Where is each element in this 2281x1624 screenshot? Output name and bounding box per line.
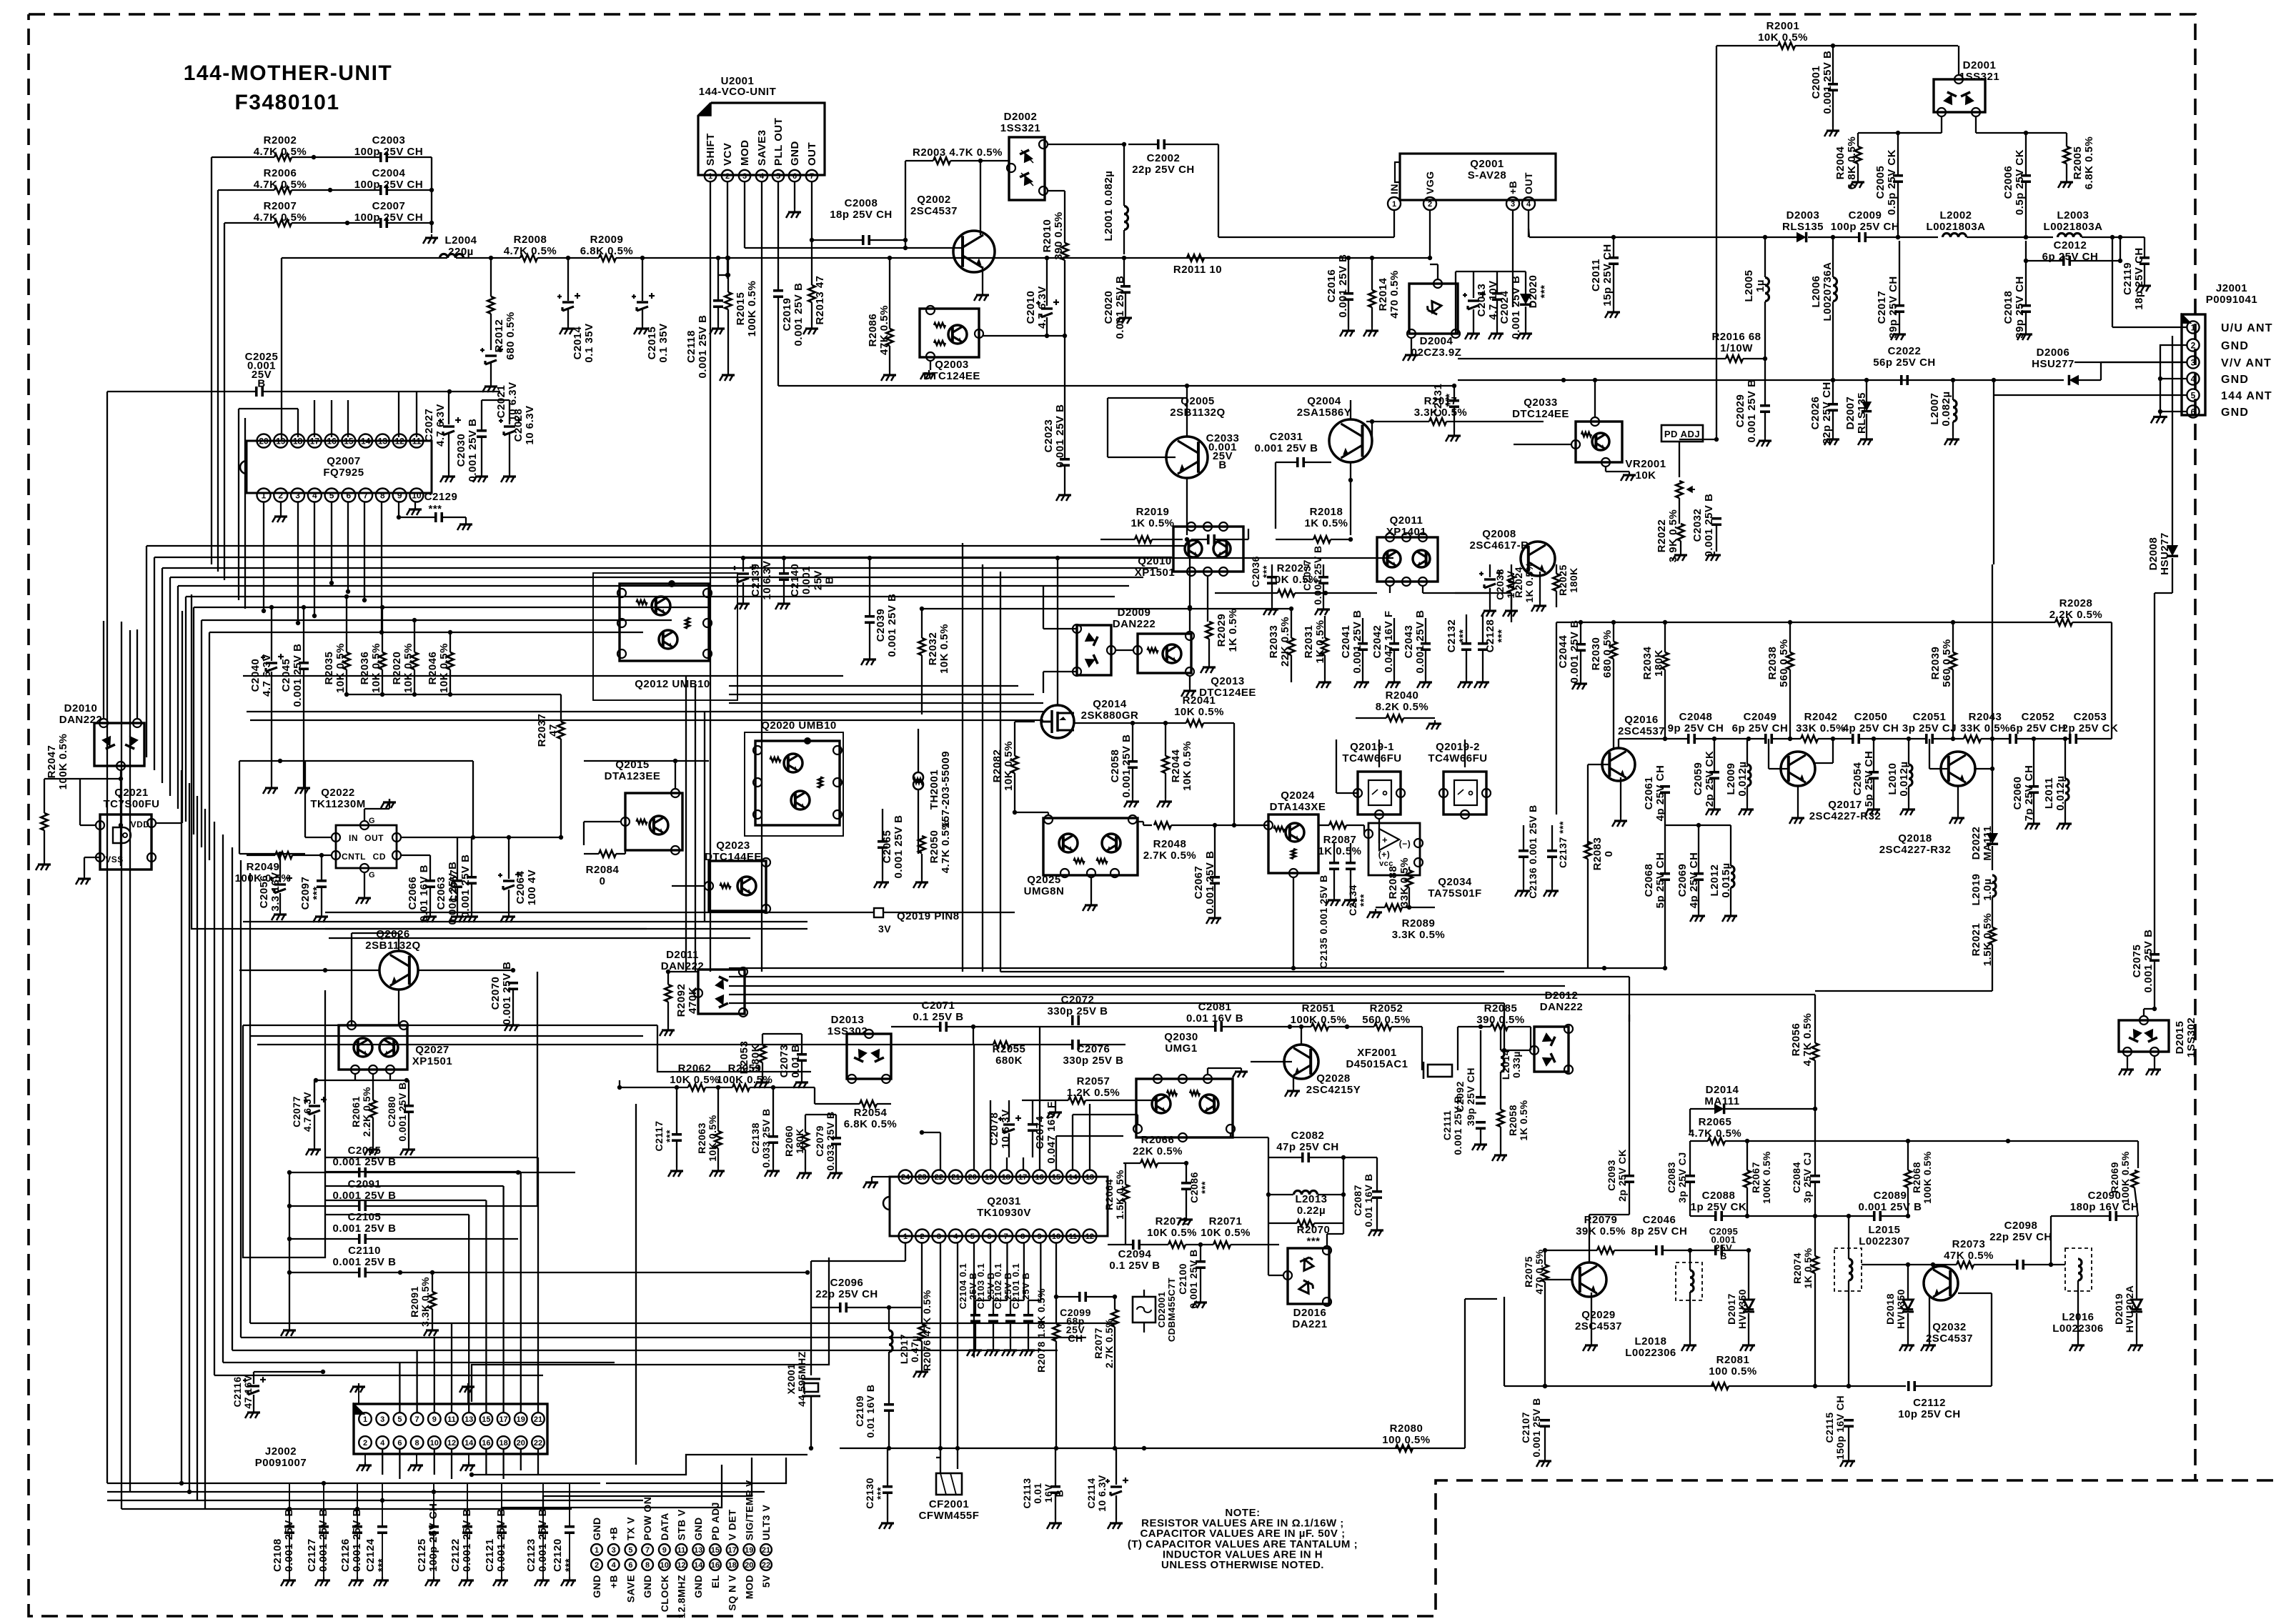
svg-text:1: 1	[262, 490, 267, 500]
capacitor C2060	[2029, 785, 2039, 788]
ground C2014	[567, 258, 569, 301]
IC Q2012 UMB10	[620, 584, 709, 661]
wire Q2031 pin14 up	[1072, 1115, 1073, 1170]
wire R2088	[1408, 867, 1410, 870]
svg-text:R2076 47K 0.5%: R2076 47K 0.5%	[921, 1290, 933, 1371]
capacitor C2107b	[1540, 1419, 1550, 1422]
wire C2074	[1008, 1100, 1010, 1122]
module U2001 pin 2	[722, 170, 733, 181]
resistor R2014	[1368, 290, 1376, 307]
capacitor C2119	[2140, 256, 2150, 259]
svg-text:R2003 4.7K 0.5%: R2003 4.7K 0.5%	[913, 146, 1003, 159]
wire R2030	[1613, 622, 1614, 642]
IC Q2031 pin 23	[915, 1170, 929, 1184]
capacitor C2052	[2009, 734, 2012, 744]
svg-text:R20581K 0.5%: R20581K 0.5%	[1507, 1100, 1529, 1140]
wire C2045	[303, 607, 304, 662]
svg-text:18: 18	[1002, 1173, 1010, 1182]
capacitor C2033	[1207, 534, 1210, 544]
connector J2002 pin 20	[515, 1436, 527, 1449]
svg-text:1: 1	[363, 1415, 367, 1424]
wire Q2032 emitter	[1958, 1292, 1992, 1294]
ground L2012	[1730, 825, 1731, 866]
wire rail1940	[1504, 1385, 1715, 1387]
wire Q2031 pin2 down	[921, 1243, 923, 1307]
wire C2076 row	[1079, 1044, 1125, 1045]
resistor R2060	[802, 1132, 809, 1150]
svg-text:17: 17	[1018, 1173, 1027, 1182]
wire VR2001	[1679, 498, 1680, 524]
wire pin1 down	[263, 502, 264, 611]
capacitor C2075	[2150, 953, 2160, 956]
ground C2113	[1055, 1448, 1056, 1486]
module Q2001 pin 3	[1506, 197, 1519, 210]
IC Q2031 pin 3	[932, 1230, 945, 1243]
wire pin6 down	[347, 502, 349, 592]
capacitor C2012	[2062, 256, 2065, 266]
ground C2135 C2134	[1333, 870, 1335, 897]
wire R2022 down	[1680, 541, 1681, 552]
legend pin 6 circle	[625, 1559, 637, 1570]
svg-text:D2007RLS135: D2007RLS135	[1844, 392, 1868, 434]
wire R2084	[584, 853, 599, 855]
svg-text:18: 18	[293, 436, 303, 446]
wire C2010	[1046, 258, 1048, 306]
ground Q2025	[1090, 877, 1092, 902]
svg-text:POW ON: POW ON	[642, 1497, 653, 1540]
wire weaveL h9	[250, 1322, 1115, 1324]
wire run weave4	[729, 994, 1815, 995]
wire R2016 row	[1458, 358, 1726, 359]
wire C2083	[1689, 1141, 1691, 1175]
svg-text:VDD: VDD	[131, 820, 150, 830]
wire R2089	[1376, 907, 1385, 908]
wire run weave1	[729, 967, 1665, 969]
capacitor C2084	[1810, 1175, 1820, 1177]
wire R2017 row	[1366, 421, 1429, 422]
svg-text:D2009DAN222: D2009DAN222	[1113, 607, 1156, 630]
wire bus v5	[244, 418, 246, 609]
inductor L2015 (shielded)	[1834, 1248, 1862, 1291]
ground Q2032	[1929, 1297, 1930, 1342]
wire J2001 pin1	[2112, 327, 2187, 328]
wire R2014	[1371, 258, 1373, 290]
svg-text:4: 4	[953, 1232, 958, 1241]
resistor R2028	[2055, 619, 2072, 626]
ground R2004	[1857, 133, 1859, 146]
wire 144ant col	[1992, 564, 1993, 739]
IC Q2031 pin 22	[932, 1170, 945, 1184]
svg-text:17: 17	[499, 1415, 507, 1424]
resistor R2057	[1068, 1097, 1085, 1104]
ground C2108	[289, 1577, 290, 1580]
svg-text:4: 4	[760, 172, 765, 181]
capacitor C2070	[508, 982, 518, 985]
wire loop E	[1000, 971, 1504, 972]
capacitor C2022	[1900, 375, 1903, 385]
wire rail 1065 right	[584, 760, 709, 762]
IC Q2007 pin 15	[342, 434, 355, 448]
resistor R2021	[1989, 927, 1996, 945]
diode D2020	[1520, 294, 1531, 304]
inductor L2017	[889, 1330, 893, 1337]
module U2001 pin 4	[756, 170, 767, 181]
svg-text:+B: +B	[1507, 181, 1519, 194]
capacitor C2014 (tantalum)	[562, 301, 574, 303]
wire C2091 row	[289, 1205, 359, 1207]
resistor R2035	[343, 652, 350, 669]
wire J2002 pin21 up	[537, 1157, 539, 1413]
svg-text:Q2027XP1501: Q2027XP1501	[412, 1044, 452, 1067]
svg-text:L2001 0.082µ: L2001 0.082µ	[1103, 171, 1115, 241]
svg-text:3: 3	[742, 172, 747, 181]
wire run h960	[729, 685, 1018, 687]
wire Q2011 pins	[1389, 586, 1391, 593]
svg-text:CNTL: CNTL	[342, 852, 366, 862]
wire pin15 up	[347, 400, 349, 437]
svg-text:CLOCK: CLOCK	[659, 1575, 670, 1612]
wire D2015 top	[2144, 1008, 2155, 1010]
module U2001 pin 6	[789, 170, 800, 181]
wire Q2015 left	[584, 821, 621, 822]
transistor Q2026 2SB1132Q	[379, 951, 418, 990]
resistor R2050	[918, 836, 925, 853]
ground C2037	[1323, 564, 1324, 577]
svg-text:8: 8	[380, 490, 385, 500]
wire J2002 pin13 elbow	[325, 1214, 469, 1215]
ground C2100	[1200, 1245, 1201, 1261]
svg-text:D20151SS302: D20151SS302	[2174, 1017, 2197, 1057]
svg-text:18: 18	[727, 1561, 736, 1570]
wire rail852	[922, 608, 1291, 609]
wire run h1277	[325, 912, 874, 913]
svg-text:Q20292SC4537: Q20292SC4537	[1575, 1309, 1622, 1332]
legend pin 10 circle	[659, 1559, 670, 1570]
wire rail1597	[1690, 1140, 1708, 1142]
ground Q2031 pin24	[872, 1176, 898, 1177]
svg-text:R2078 1.8K 0.5%: R2078 1.8K 0.5%	[1035, 1288, 1047, 1373]
wire R2040	[1356, 717, 1386, 719]
wire loop G	[606, 1458, 786, 1483]
svg-text:3: 3	[937, 1232, 941, 1241]
wire rail871 right	[2072, 622, 2112, 623]
capacitor C2131	[1449, 399, 1459, 402]
IC Q2007 pin 19	[274, 434, 287, 448]
capacitor C2065	[878, 840, 888, 843]
capacitor C2110	[358, 1267, 361, 1277]
resistor R2032	[918, 638, 925, 655]
capacitor C2068	[1660, 872, 1670, 875]
IC Q2031 pin 13	[1083, 1170, 1096, 1184]
wire L2015 col	[1848, 1216, 1849, 1259]
wire row1750 c	[1722, 1250, 1749, 1251]
capacitor C2113	[1050, 1485, 1060, 1488]
svg-text:144 ANT: 144 ANT	[2221, 390, 2272, 402]
wire R2003	[905, 160, 933, 161]
resistor R2044	[1162, 756, 1169, 773]
transistor Q2002 2SC4537	[953, 231, 995, 272]
module Q2001 pin 2	[1423, 197, 1436, 210]
svg-text:R2011 10: R2011 10	[1173, 264, 1222, 276]
wire R2087	[1318, 825, 1329, 826]
legend pin 2 circle	[591, 1559, 602, 1570]
svg-text:12: 12	[394, 436, 404, 446]
ground C2092	[1480, 1030, 1481, 1097]
ground C2060	[2033, 739, 2034, 786]
transistor Q2028 2SC4215Y	[1284, 1045, 1318, 1079]
resistor R2054	[860, 1100, 877, 1107]
resistor R2010	[1061, 243, 1068, 260]
wire left v170	[121, 622, 122, 1509]
capacitor C2007	[379, 218, 382, 228]
svg-text:22: 22	[762, 1561, 770, 1570]
capacitor C2138	[768, 1135, 778, 1138]
IC Q2031 pin 24	[899, 1170, 913, 1184]
wire C2093	[1629, 1015, 1630, 1175]
capacitor C2083	[1685, 1175, 1695, 1177]
transistor Q2018 2SC4227-R32	[1941, 752, 1975, 786]
wire R2085 row	[1458, 1026, 1491, 1027]
svg-text:R2034180K: R2034180K	[1641, 646, 1665, 679]
wire cap bus vertical	[431, 157, 432, 233]
legend pin 8 circle	[642, 1559, 653, 1570]
resistor R2078	[1053, 1324, 1060, 1341]
wire bus h5	[178, 585, 1129, 587]
IC Q2031 pin 10	[1050, 1230, 1063, 1243]
wire L2005	[1764, 237, 1766, 277]
capacitor C2096	[839, 1302, 842, 1312]
transistor Q2016 2SC4537	[1602, 748, 1635, 781]
wire Q2026 emitter	[398, 990, 399, 1025]
ground Q2013	[1189, 676, 1191, 687]
legend pin 3 circle	[608, 1544, 620, 1555]
wire C2012	[2026, 260, 2063, 261]
capacitor C2037	[1318, 576, 1328, 579]
switch Q2019-1 TC4W66FU	[1358, 772, 1401, 815]
inductor L2002	[1943, 234, 1951, 237]
capacitor C2128	[1478, 642, 1488, 645]
wire row1034 f	[1933, 738, 1964, 739]
wire C2016	[1348, 258, 1349, 293]
svg-text:R20311K 0.5%: R20311K 0.5%	[1303, 619, 1326, 663]
resistor R2006	[274, 186, 292, 194]
diode D2008 HSU277	[2167, 545, 2178, 556]
svg-text:V/V ANT: V/V ANT	[2221, 357, 2272, 369]
legend pin 18 circle	[727, 1559, 738, 1570]
connector J2001 pin 3	[2187, 356, 2199, 368]
IC Q2031 pin 19	[983, 1170, 996, 1184]
wire R2091	[432, 1272, 433, 1292]
inductor L2007	[1953, 400, 1957, 407]
svg-text:MOD: MOD	[743, 1575, 755, 1599]
svg-text:R2092470K: R2092470K	[675, 984, 699, 1017]
capacitor C2017	[1894, 304, 1904, 307]
ground C2125	[433, 1577, 434, 1580]
svg-text:4: 4	[380, 1439, 385, 1448]
diode D2006 HSU277	[2069, 375, 2079, 385]
wire rail-left	[282, 257, 447, 259]
svg-text:13: 13	[464, 1415, 473, 1424]
wire J2002 bus 5	[472, 1455, 807, 1475]
wire D2014 row	[1690, 1108, 1714, 1110]
svg-text:12: 12	[447, 1439, 456, 1448]
wire Q2016 collector	[1618, 739, 1619, 748]
wire pin4 down	[314, 502, 315, 616]
wire R2048 right	[1171, 825, 1268, 826]
legend pin 7 circle	[642, 1544, 653, 1555]
ground C2015	[642, 258, 643, 301]
svg-text:SAVE3: SAVE3	[756, 129, 768, 166]
connector J2001 pin 2	[2187, 339, 2199, 351]
wire rail 1065	[239, 760, 473, 762]
wire rail871 left drop	[1556, 622, 1557, 815]
wire Q2029 base	[1545, 1279, 1572, 1280]
ground Q2003	[930, 361, 931, 370]
wire run weave2	[729, 976, 1629, 977]
svg-text:R20191K 0.5%: R20191K 0.5%	[1130, 506, 1174, 529]
wire C2085 row	[289, 1172, 359, 1173]
wire R2053	[762, 1034, 763, 1045]
wire R2063	[717, 1087, 719, 1131]
svg-text:L20170.47µ: L20170.47µ	[898, 1334, 920, 1364]
connector J2001 body	[2182, 314, 2205, 415]
wire loop D	[657, 1025, 811, 1072]
capacitor C2023	[1060, 458, 1070, 461]
wire J2002 bus 6	[502, 1465, 722, 1516]
svg-text:C202810 6.3V: C202810 6.3V	[512, 405, 536, 444]
capacitor C2057	[467, 876, 477, 879]
capacitor C2028 (tantalum)	[504, 425, 515, 427]
inductor L2018 (shielded)	[1676, 1262, 1702, 1300]
capacitor C2100	[1196, 1260, 1206, 1263]
svg-text:20: 20	[517, 1439, 525, 1448]
svg-text:10: 10	[430, 1439, 439, 1448]
IC Q2007 pin 13	[376, 434, 389, 448]
capacitor C2132	[1461, 642, 1471, 645]
svg-text:15: 15	[1052, 1173, 1060, 1182]
wire C2084	[1814, 1109, 1816, 1175]
ground R2005	[2066, 133, 2067, 146]
connector J2002 pin 16	[480, 1436, 493, 1449]
wire bus v2	[217, 190, 219, 572]
svg-text:9: 9	[397, 490, 402, 500]
capacitor C2025	[255, 387, 258, 397]
wire R2027	[1215, 592, 1278, 594]
resistor R2049	[275, 852, 292, 859]
wire run weave5	[729, 1002, 1504, 1004]
svg-text:GND: GND	[591, 1517, 602, 1540]
legend pin 12 circle	[676, 1559, 687, 1570]
wire R2071 out	[1231, 1244, 1279, 1245]
IC Q2023 DTC144EE	[709, 861, 766, 911]
svg-text:12.8MHZ: 12.8MHZ	[676, 1575, 687, 1618]
connector J2002 pin 10	[428, 1436, 441, 1449]
wire Q2015 top	[675, 761, 676, 789]
wire R2053 top rail	[762, 1033, 802, 1035]
wire bus h2	[154, 557, 1172, 558]
resistor R2087	[1329, 822, 1346, 829]
svg-text:C213910 6.3V: C213910 6.3V	[750, 560, 773, 599]
capacitor C2078 (tantalum)	[1003, 1123, 1015, 1125]
diode D2010 DAN222	[94, 723, 144, 766]
wire Q2021 in	[80, 825, 96, 826]
wire R2037	[560, 694, 562, 722]
wire pin19 drop	[281, 258, 282, 441]
connector J2002 body	[354, 1404, 547, 1454]
wire Q2029 collector	[1589, 1215, 1590, 1262]
ground C2039	[869, 558, 870, 616]
wire Q2025 left	[1015, 812, 1048, 813]
IC Q2007 pin 14	[359, 434, 372, 448]
ceramic filter CF2001 CFWM455F	[936, 1473, 962, 1495]
wire bus v4	[238, 409, 239, 600]
capacitor C2103	[988, 1314, 998, 1317]
module U2001 body	[698, 103, 825, 175]
connector J2002 pin 18	[497, 1436, 510, 1449]
filter CD2001 CDBM455C7T	[1133, 1297, 1156, 1322]
svg-text:L20140.33µ: L20140.33µ	[1500, 1050, 1522, 1080]
IC Q2007 pin 6	[342, 489, 355, 502]
wire row1702 b	[1881, 1215, 1908, 1217]
svg-text:MOD: MOD	[739, 140, 751, 166]
resistor R2047	[41, 813, 48, 830]
wire row1034 d	[1818, 738, 1852, 739]
capacitor C2076	[1071, 1040, 1074, 1050]
ground Q2028	[1293, 1075, 1294, 1087]
wire J2002 bus 4	[121, 1508, 572, 1510]
svg-text:TX V: TX V	[625, 1517, 636, 1540]
wire weaveL v4	[204, 809, 206, 1509]
wire J2002 pin9 up	[434, 1337, 435, 1413]
wire D2012 left	[1504, 1050, 1530, 1051]
svg-text:Q2007FQ7925: Q2007FQ7925	[323, 455, 364, 479]
svg-text:R20241K 0.5%: R20241K 0.5%	[1513, 562, 1535, 602]
capacitor C2004	[379, 185, 382, 195]
capacitor C2114 (tantalum)	[1110, 1485, 1122, 1488]
wire D2001 left pin	[1941, 116, 1942, 133]
wire R2083	[1587, 859, 1589, 968]
IC Q2031 pin 12	[1083, 1230, 1096, 1243]
IC Q2007 pin 4	[308, 489, 322, 502]
resistor R2007	[274, 219, 292, 226]
svg-text:VCV: VCV	[722, 143, 734, 166]
capacitor C2135	[1329, 862, 1339, 865]
wire CD2001	[1143, 1290, 1145, 1297]
connector J2001 pin 1	[2187, 321, 2199, 333]
resistor R2013	[808, 285, 815, 302]
resistor R2018	[1313, 536, 1331, 543]
legend pin 17 circle	[727, 1544, 738, 1555]
ground R2061	[372, 1080, 374, 1100]
wire pin16 up	[331, 400, 332, 437]
svg-text:17: 17	[727, 1546, 736, 1555]
resistor R2072	[1168, 1241, 1186, 1248]
wire C2091 ext	[518, 1205, 537, 1207]
connector J2002 pin 11	[445, 1413, 458, 1425]
wire pin18 up	[297, 409, 299, 437]
svg-text:D2017HVU350: D2017HVU350	[1726, 1289, 1748, 1329]
svg-text:16: 16	[1035, 1173, 1043, 1182]
svg-text:C2137 ***: C2137 ***	[1557, 821, 1569, 868]
wire R2012-C2021	[490, 258, 492, 297]
legend pin 19 circle	[743, 1544, 755, 1555]
wire Q2001 VGG down	[1429, 210, 1431, 258]
svg-text:24: 24	[901, 1173, 910, 1182]
svg-text:3: 3	[380, 1415, 384, 1424]
wire C2129	[398, 502, 399, 517]
svg-text:GND: GND	[692, 1575, 704, 1598]
svg-text:U/U ANT: U/U ANT	[2221, 322, 2273, 334]
